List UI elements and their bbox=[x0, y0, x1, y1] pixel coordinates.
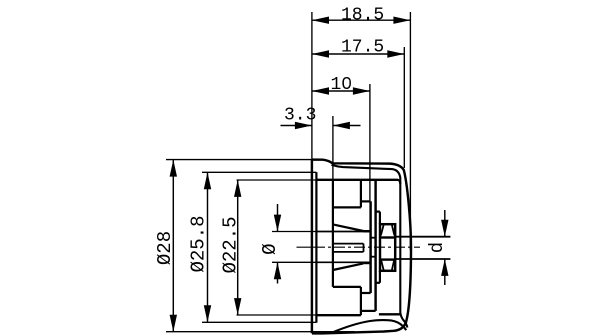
svg-text:Ø28: Ø28 bbox=[154, 231, 176, 265]
svg-text:Ø22.5: Ø22.5 bbox=[220, 216, 242, 273]
svg-text:d: d bbox=[426, 242, 448, 253]
svg-text:18.5: 18.5 bbox=[341, 5, 384, 25]
svg-text:Ø25.8: Ø25.8 bbox=[188, 215, 210, 272]
svg-text:Ø: Ø bbox=[259, 243, 281, 254]
svg-text:3.3: 3.3 bbox=[284, 106, 316, 126]
svg-text:17.5: 17.5 bbox=[341, 38, 384, 58]
